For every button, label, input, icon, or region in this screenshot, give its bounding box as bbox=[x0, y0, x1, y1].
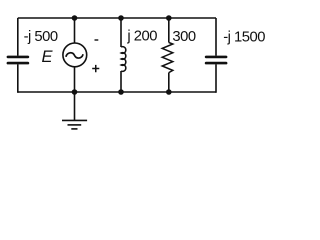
wire inductor branch upper bbox=[120, 17, 122, 47]
node inductor bottom bbox=[118, 89, 124, 95]
label E bbox=[42, 48, 54, 66]
ground bbox=[62, 92, 87, 129]
label j 200 bbox=[126, 29, 157, 45]
resistor 300 bbox=[162, 43, 173, 73]
node resistor bottom bbox=[166, 89, 172, 95]
inductor j 200 bbox=[121, 47, 126, 72]
label minus polarity bbox=[95, 39, 99, 41]
capacitor C1 -j 500 bbox=[8, 57, 28, 63]
node inductor top bbox=[118, 15, 124, 21]
capacitor C2 -j 1500 bbox=[206, 57, 226, 63]
node resistor top bbox=[166, 15, 172, 21]
wire source branch lower bbox=[74, 66, 76, 92]
label plus polarity bbox=[92, 65, 99, 72]
label -j 500 bbox=[24, 29, 58, 45]
wire left branch upper bbox=[17, 18, 19, 56]
svg-text:E: E bbox=[42, 48, 54, 66]
wire source branch upper bbox=[74, 17, 76, 43]
label 300 bbox=[172, 29, 195, 45]
wire right branch upper bbox=[215, 18, 217, 56]
wire bottom bus bbox=[18, 91, 216, 93]
wire resistor branch lower bbox=[168, 73, 170, 92]
svg-text:-j 500: -j 500 bbox=[24, 29, 58, 45]
wire left branch lower bbox=[17, 64, 19, 93]
wire right branch lower bbox=[215, 64, 217, 93]
node source bottom bbox=[72, 89, 78, 95]
label -j 1500 bbox=[223, 29, 265, 45]
svg-text:300: 300 bbox=[172, 29, 195, 45]
wire top bus bbox=[18, 17, 216, 19]
wire resistor branch upper bbox=[168, 17, 170, 42]
node source top bbox=[72, 15, 78, 21]
source E (AC) bbox=[63, 43, 87, 67]
svg-text:-j 1500: -j 1500 bbox=[223, 29, 265, 45]
svg-text:j 200: j 200 bbox=[126, 29, 157, 45]
wire inductor branch lower bbox=[120, 71, 122, 92]
